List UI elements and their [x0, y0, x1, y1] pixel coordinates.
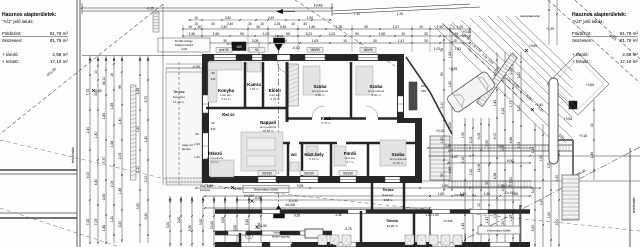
svg-text:16: 16	[110, 73, 114, 77]
svg-text:10: 10	[477, 203, 481, 207]
svg-text:11,36 m: 11,36 m	[393, 161, 404, 165]
svg-text:A 2-jelű: A 2-jelű	[275, 34, 284, 38]
svg-text:90/150: 90/150	[343, 171, 353, 175]
svg-text:150: 150	[421, 89, 426, 93]
svg-text:1,50: 1,50	[547, 212, 551, 219]
svg-text:1,02: 1,02	[263, 32, 270, 36]
svg-text:+0,18: +0,18	[579, 134, 587, 138]
svg-text:160: 160	[236, 45, 242, 49]
svg-text:+0,65: +0,65	[586, 83, 595, 87]
svg-text:8,0 m: 8,0 m	[211, 160, 219, 164]
svg-text:1,47: 1,47	[398, 39, 405, 43]
svg-text:81,79 m²: 81,79 m²	[620, 31, 639, 36]
svg-text:1,50: 1,50	[442, 184, 449, 188]
svg-text:+0,40: +0,40	[535, 103, 543, 107]
svg-text:90: 90	[355, 32, 359, 36]
svg-text:1,50: 1,50	[207, 184, 214, 188]
svg-text:10: 10	[194, 16, 198, 20]
svg-text:+1,25: +1,25	[546, 27, 554, 31]
svg-text:78: 78	[440, 48, 444, 52]
svg-text:telekhatár: telekhatár	[71, 146, 75, 163]
svg-text:+ terasz:: + terasz:	[572, 59, 590, 64]
svg-text:7,05: 7,05	[94, 219, 98, 226]
svg-text:1,50: 1,50	[379, 32, 386, 36]
svg-text:Hőszivattyú kültéri: Hőszivattyú kültéri	[487, 228, 511, 232]
svg-text:18,68 m: 18,68 m	[263, 129, 274, 133]
svg-text:81,79 m²: 81,79 m²	[50, 31, 69, 36]
svg-text:±0,00: ±0,00	[225, 113, 234, 117]
svg-text:17,10 m: 17,10 m	[173, 100, 184, 104]
svg-text:99: 99	[118, 85, 122, 89]
svg-text:1,50: 1,50	[438, 192, 445, 196]
svg-text:1,02: 1,02	[329, 32, 336, 36]
svg-text:9,90 m: 9,90 m	[371, 93, 381, 97]
svg-text:2,00: 2,00	[144, 176, 148, 183]
svg-text:30: 30	[424, 32, 428, 36]
svg-text:90: 90	[240, 32, 244, 36]
svg-text:4,7 m: 4,7 m	[346, 160, 354, 164]
svg-text:5,30: 5,30	[188, 225, 192, 231]
svg-text:90: 90	[440, 173, 444, 177]
svg-text:1,42: 1,42	[493, 100, 497, 107]
svg-text:81,79 m²: 81,79 m²	[620, 38, 639, 43]
svg-text:90: 90	[255, 48, 259, 52]
svg-text:1,48: 1,48	[102, 225, 106, 232]
svg-text:lefolyás: lefolyás	[200, 188, 211, 192]
svg-text:3,50: 3,50	[118, 221, 122, 228]
svg-text:1,85: 1,85	[102, 113, 106, 120]
svg-text:2,68 m²: 2,68 m²	[622, 52, 638, 57]
svg-text:2,00: 2,00	[233, 225, 237, 231]
svg-text:2,05: 2,05	[118, 153, 122, 160]
svg-text:fa.ter.bur.: fa.ter.bur.	[173, 95, 186, 99]
svg-text:3,35 m: 3,35 m	[270, 97, 280, 101]
svg-text:1,40: 1,40	[94, 132, 98, 139]
svg-text:1,35: 1,35	[336, 25, 343, 29]
svg-text:90/150: 90/150	[304, 171, 314, 175]
svg-text:9,90 m: 9,90 m	[315, 93, 325, 97]
svg-text:1,50: 1,50	[448, 167, 452, 174]
svg-text:lefolyó: lefolyó	[182, 147, 191, 151]
svg-text:-0,15: -0,15	[226, 42, 234, 46]
svg-text:"A/1" jelű lakás:: "A/1" jelű lakás:	[2, 19, 34, 24]
svg-text:-3,75: -3,75	[344, 227, 351, 231]
svg-text:D=100: D=100	[455, 193, 464, 197]
svg-text:2,40: 2,40	[227, 22, 233, 26]
svg-text:14,28 m: 14,28 m	[387, 224, 398, 228]
svg-text:1,50: 1,50	[509, 215, 513, 222]
svg-text:3,50: 3,50	[509, 177, 513, 184]
svg-text:+ terasz:: + terasz:	[2, 59, 20, 64]
svg-text:9,88 m: 9,88 m	[384, 198, 393, 202]
svg-text:1,50: 1,50	[213, 32, 220, 36]
svg-text:5,15: 5,15	[461, 157, 465, 164]
svg-text:3,00: 3,00	[555, 219, 559, 226]
svg-text:4,58: 4,58	[493, 173, 497, 180]
svg-text:Hasznos alapterületek:: Hasznos alapterületek:	[572, 12, 627, 18]
svg-text:kerítés: kerítés	[463, 233, 467, 243]
svg-text:1,82: 1,82	[448, 52, 452, 59]
svg-text:2,40: 2,40	[86, 127, 90, 134]
svg-text:5,21: 5,21	[306, 32, 313, 36]
svg-text:17,10 m²: 17,10 m²	[50, 59, 69, 64]
svg-text:30: 30	[211, 22, 215, 26]
svg-text:1,02: 1,02	[457, 25, 464, 29]
svg-text:19,00: 19,00	[210, 221, 214, 229]
svg-text:D=100: D=100	[505, 191, 515, 195]
svg-text:10: 10	[401, 32, 405, 36]
svg-text:+ tároló:: + tároló:	[572, 52, 589, 57]
svg-text:2,05: 2,05	[110, 181, 114, 188]
svg-text:2,10: 2,10	[440, 102, 444, 109]
svg-text:3,50: 3,50	[136, 203, 140, 210]
svg-text:WC: WC	[291, 153, 298, 157]
svg-text:160/90: 160/90	[310, 48, 320, 52]
svg-text:+0,65: +0,65	[564, 117, 573, 121]
svg-text:1,63: 1,63	[312, 39, 319, 43]
svg-text:Terasz: Terasz	[382, 188, 393, 192]
svg-text:1,20: 1,20	[469, 169, 473, 176]
svg-text:10: 10	[188, 25, 192, 29]
svg-text:2,68 m²: 2,68 m²	[52, 52, 68, 57]
svg-text:9,00: 9,00	[493, 133, 497, 140]
svg-text:Hasznos alapterületek:: Hasznos alapterületek:	[2, 12, 57, 18]
svg-text:5,70 m: 5,70 m	[321, 121, 331, 125]
svg-text:7,73: 7,73	[86, 89, 90, 96]
svg-text:10,05: 10,05	[289, 199, 298, 203]
svg-text:240: 240	[211, 127, 216, 131]
svg-text:9,35: 9,35	[297, 184, 304, 188]
svg-text:1,50: 1,50	[539, 155, 543, 162]
svg-text:3,20: 3,20	[448, 122, 452, 129]
svg-text:30: 30	[303, 22, 307, 26]
svg-text:1,90 m: 1,90 m	[249, 87, 259, 91]
svg-text:5,03 m: 5,03 m	[309, 157, 319, 161]
svg-text:1,45: 1,45	[461, 223, 465, 230]
svg-text:10: 10	[343, 39, 347, 43]
svg-text:sekélyalapozás: sekélyalapozás	[520, 14, 540, 18]
svg-text:2,25: 2,25	[501, 108, 505, 115]
svg-text:30: 30	[590, 123, 594, 127]
svg-text:6,86: 6,86	[509, 137, 513, 144]
svg-text:30: 30	[197, 25, 201, 29]
svg-text:1,50: 1,50	[440, 137, 444, 144]
svg-text:-0,20: -0,20	[181, 47, 188, 51]
svg-text:1,20 1,50: 1,20 1,50	[425, 213, 439, 217]
svg-text:2,65: 2,65	[102, 194, 106, 201]
svg-text:90: 90	[195, 132, 199, 136]
svg-text:10: 10	[260, 22, 264, 26]
svg-text:1,45: 1,45	[590, 152, 594, 159]
svg-text:+0,15: +0,15	[436, 129, 445, 133]
svg-text:2,00: 2,00	[177, 217, 181, 223]
svg-text:-0,02: -0,02	[292, 46, 300, 50]
svg-text:10: 10	[94, 70, 98, 74]
svg-text:1,60: 1,60	[448, 81, 452, 88]
svg-text:Földszint:: Földszint:	[2, 31, 22, 36]
svg-text:90: 90	[211, 71, 215, 75]
svg-text:5,30: 5,30	[245, 219, 249, 225]
svg-text:1,47: 1,47	[393, 25, 400, 29]
svg-text:2,49: 2,49	[280, 25, 287, 29]
svg-text:1,60: 1,60	[136, 126, 140, 133]
svg-text:1,50: 1,50	[461, 132, 465, 139]
svg-text:-0,93: -0,93	[233, 187, 241, 191]
svg-text:7,35: 7,35	[86, 219, 90, 226]
svg-text:81,79 m²: 81,79 m²	[50, 38, 69, 43]
svg-text:10: 10	[453, 39, 457, 43]
svg-text:10: 10	[419, 25, 423, 29]
svg-text:3,00: 3,00	[531, 187, 535, 194]
svg-text:1,50: 1,50	[309, 25, 316, 29]
svg-text:pml 90: pml 90	[219, 48, 229, 52]
svg-text:3,50: 3,50	[166, 222, 170, 228]
svg-text:30: 30	[256, 25, 260, 29]
svg-text:4,49: 4,49	[136, 88, 140, 95]
svg-text:D=108: D=108	[444, 219, 453, 223]
svg-text:összesen:: összesen:	[572, 38, 593, 43]
svg-text:5,00: 5,00	[507, 159, 514, 163]
svg-text:1,40: 1,40	[118, 118, 122, 125]
svg-text:F1: F1	[247, 234, 251, 238]
svg-text:3,50: 3,50	[199, 219, 203, 225]
svg-text:1,20: 1,20	[136, 166, 140, 173]
svg-text:160/90: 160/90	[363, 48, 373, 52]
svg-text:telekhatár: telekhatár	[632, 196, 636, 213]
svg-text:"A/2" jelű lakás:: "A/2" jelű lakás:	[572, 19, 604, 24]
svg-text:1,20: 1,20	[555, 175, 559, 182]
svg-text:5,05: 5,05	[477, 133, 481, 140]
svg-text:-0,80: -0,80	[259, 224, 266, 228]
svg-text:2,05: 2,05	[252, 39, 259, 43]
svg-text:összesen:: összesen:	[2, 38, 23, 43]
svg-text:fa.ter.bur.: fa.ter.bur.	[382, 193, 394, 197]
svg-text:Tároló: Tároló	[386, 218, 399, 223]
svg-text:10: 10	[291, 22, 295, 26]
svg-text:1,20: 1,20	[539, 199, 543, 206]
svg-text:1,35: 1,35	[531, 147, 535, 154]
svg-text:30: 30	[373, 39, 377, 43]
svg-text:30: 30	[485, 181, 489, 185]
svg-text:5,30: 5,30	[144, 213, 148, 220]
svg-text:3,50: 3,50	[221, 217, 225, 223]
svg-text:7,10: 7,10	[354, 12, 361, 16]
svg-text:2,03: 2,03	[469, 137, 473, 144]
svg-text:3,50: 3,50	[531, 225, 535, 232]
svg-text:90: 90	[440, 72, 444, 76]
svg-text:2,40: 2,40	[221, 25, 228, 29]
svg-text:1,40: 1,40	[144, 136, 148, 143]
svg-text:-1,35: -1,35	[334, 213, 341, 217]
svg-text:-0,65: -0,65	[94, 89, 102, 93]
svg-text:kültéri egység: kültéri egység	[272, 235, 290, 239]
svg-text:+9,55: +9,55	[449, 67, 458, 71]
svg-text:2,40: 2,40	[194, 142, 200, 146]
svg-text:+ tároló:: + tároló:	[2, 52, 19, 57]
svg-text:16,06: 16,06	[477, 164, 481, 173]
svg-text:36,10: 36,10	[102, 77, 106, 86]
svg-text:1,68: 1,68	[110, 141, 114, 148]
svg-text:+0,65: +0,65	[529, 44, 537, 48]
svg-text:1,50: 1,50	[189, 32, 196, 36]
svg-text:1,85: 1,85	[110, 103, 114, 110]
svg-text:1,20: 1,20	[397, 12, 404, 16]
svg-text:6,12 m: 6,12 m	[221, 97, 231, 101]
svg-text:30: 30	[248, 22, 252, 26]
svg-text:17,10 m²: 17,10 m²	[620, 59, 639, 64]
svg-text:19,48: 19,48	[314, 4, 323, 8]
svg-text:9,00: 9,00	[86, 172, 90, 179]
svg-text:-0,35: -0,35	[146, 7, 153, 11]
svg-text:9,35: 9,35	[294, 214, 301, 218]
svg-text:3,52°: 3,52°	[451, 155, 459, 159]
svg-text:1,47: 1,47	[485, 217, 489, 224]
svg-text:5,70: 5,70	[144, 96, 148, 103]
svg-text:5,70: 5,70	[102, 157, 106, 164]
svg-text:55: 55	[286, 32, 290, 36]
svg-text:30: 30	[424, 39, 428, 43]
svg-text:4,40: 4,40	[94, 179, 98, 186]
svg-text:90/150: 90/150	[262, 171, 272, 175]
svg-text:1,20: 1,20	[110, 216, 114, 223]
svg-text:1,40: 1,40	[194, 155, 200, 159]
svg-text:3,80: 3,80	[225, 16, 231, 20]
svg-text:Terasz: Terasz	[173, 89, 185, 94]
svg-text:1,50: 1,50	[437, 25, 444, 29]
svg-text:90: 90	[211, 121, 215, 125]
svg-text:30: 30	[364, 25, 368, 29]
svg-text:sekélyre lefolyó: sekélyre lefolyó	[175, 43, 194, 47]
svg-text:Földszint:: Földszint:	[572, 31, 592, 36]
svg-text:D=100 rothagy.: D=100 rothagy.	[175, 39, 194, 43]
svg-text:240: 240	[211, 77, 216, 81]
svg-text:1,48: 1,48	[118, 188, 122, 195]
svg-text:1,50: 1,50	[484, 192, 491, 196]
